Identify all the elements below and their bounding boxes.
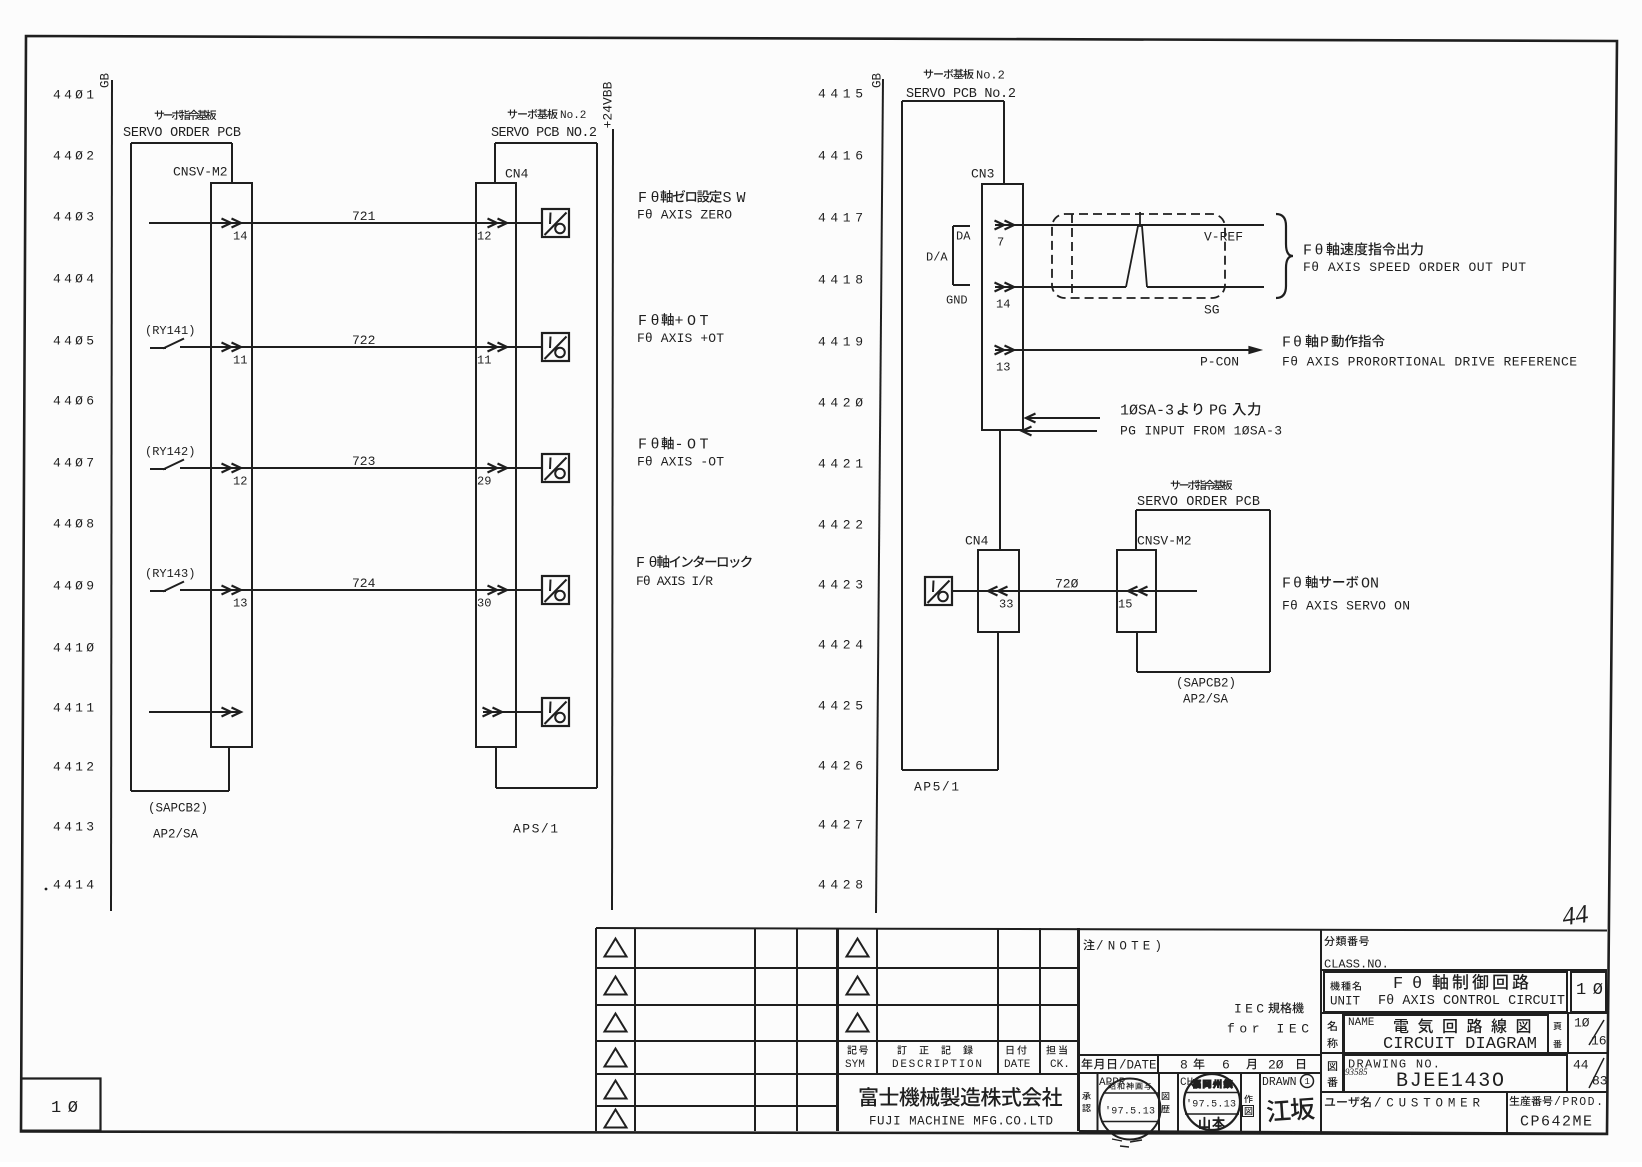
svg-text:CLASS.NO.: CLASS.NO. — [1324, 957, 1389, 971]
svg-text:Fθ AXIS I/R: Fθ AXIS I/R — [636, 574, 713, 589]
svg-text:θ: θ — [1315, 242, 1324, 259]
svg-text:PG INPUT FROM 1ØSA-3: PG INPUT FROM 1ØSA-3 — [1120, 424, 1282, 439]
svg-text:72Ø: 72Ø — [1055, 577, 1079, 592]
svg-text:Fθ AXIS ZERO: Fθ AXIS ZERO — [637, 208, 732, 223]
svg-text:APS/1: APS/1 — [513, 822, 560, 837]
svg-text:No.2: No.2 — [976, 68, 1005, 82]
svg-text:SERVO ORDER PCB: SERVO ORDER PCB — [1137, 495, 1260, 510]
svg-text:PG: PG — [1209, 402, 1227, 419]
svg-text:723: 723 — [352, 454, 375, 469]
svg-text:-OT: -OT — [675, 437, 709, 454]
svg-text:722: 722 — [352, 333, 375, 348]
svg-text:12: 12 — [477, 229, 491, 243]
svg-text:(RY142): (RY142) — [145, 445, 195, 459]
svg-text:1: 1 — [1305, 1077, 1310, 1087]
svg-text:(RY141): (RY141) — [145, 324, 195, 338]
svg-text:DATE: DATE — [1004, 1059, 1031, 1071]
svg-text:13: 13 — [233, 596, 247, 610]
svg-text:BJEE143O: BJEE143O — [1396, 1070, 1504, 1093]
svg-text:No.2: No.2 — [560, 110, 586, 122]
svg-text:F: F — [636, 555, 645, 572]
svg-text:CNSV-M2: CNSV-M2 — [1137, 534, 1192, 549]
svg-text:F: F — [638, 313, 647, 330]
svg-text:33: 33 — [999, 597, 1013, 611]
svg-text:16: 16 — [1591, 1034, 1607, 1049]
svg-text:P-CON: P-CON — [1200, 355, 1239, 370]
svg-text:GB: GB — [98, 72, 112, 88]
svg-text:CN4: CN4 — [505, 167, 529, 182]
svg-text:F: F — [1393, 975, 1403, 994]
svg-text:(SAPCB2): (SAPCB2) — [148, 801, 208, 815]
svg-text:14: 14 — [996, 297, 1010, 311]
svg-text:93585: 93585 — [1345, 1067, 1368, 1077]
svg-text:(SAPCB2): (SAPCB2) — [1176, 676, 1236, 690]
svg-text:DRAWN: DRAWN — [1262, 1076, 1297, 1089]
svg-text:P: P — [1320, 334, 1329, 351]
svg-text:CN3: CN3 — [971, 167, 994, 182]
svg-text:SG: SG — [1204, 303, 1220, 318]
svg-text:(RY143): (RY143) — [145, 567, 195, 581]
svg-text:1ØSA-3: 1ØSA-3 — [1120, 402, 1174, 419]
svg-text:AP2/SA: AP2/SA — [153, 827, 199, 841]
svg-text:2Ø: 2Ø — [1268, 1058, 1284, 1073]
svg-text:Fθ AXIS +OT: Fθ AXIS +OT — [637, 331, 724, 346]
svg-text:83: 83 — [1592, 1074, 1608, 1089]
svg-text:UNIT: UNIT — [1330, 994, 1361, 1008]
svg-text:F: F — [638, 437, 647, 454]
svg-text:+OT: +OT — [675, 313, 709, 330]
svg-text:/CUSTOMER: /CUSTOMER — [1374, 1096, 1480, 1110]
svg-text:44: 44 — [1573, 1058, 1589, 1073]
svg-text:θ: θ — [651, 313, 660, 330]
svg-text:1 Ø: 1 Ø — [51, 1099, 78, 1118]
svg-text:θ: θ — [1412, 975, 1422, 994]
svg-text:8: 8 — [1180, 1058, 1188, 1073]
svg-text:+24VBB: +24VBB — [601, 81, 616, 128]
svg-text:Fθ AXIS PRORORTIONAL DRIVE REF: Fθ AXIS PRORORTIONAL DRIVE REFERENCE — [1282, 355, 1577, 370]
svg-text:Fθ AXIS SERVO ON: Fθ AXIS SERVO ON — [1282, 599, 1410, 614]
svg-text:IEC: IEC — [1234, 1002, 1264, 1017]
svg-text:ON: ON — [1361, 575, 1379, 592]
svg-text:F: F — [1282, 575, 1291, 592]
svg-text:F: F — [638, 190, 647, 207]
svg-text:θ: θ — [651, 437, 660, 454]
svg-text:Fθ AXIS -OT: Fθ AXIS -OT — [637, 454, 724, 469]
svg-text:724: 724 — [352, 576, 376, 591]
svg-text:θ: θ — [1293, 575, 1302, 592]
svg-text:1Ø: 1Ø — [1574, 1016, 1590, 1031]
svg-text:1 Ø: 1 Ø — [1576, 981, 1603, 1000]
svg-text:AP2/SA: AP2/SA — [1183, 692, 1229, 706]
svg-text:SERVO PCB No.2: SERVO PCB No.2 — [906, 87, 1016, 102]
svg-text:GND: GND — [946, 293, 968, 307]
svg-text:13: 13 — [996, 360, 1010, 374]
svg-text:15: 15 — [1118, 597, 1132, 611]
svg-text:11: 11 — [477, 353, 491, 367]
svg-text:30: 30 — [477, 596, 491, 610]
svg-text:D/A: D/A — [926, 250, 948, 264]
svg-text:CK.: CK. — [1050, 1059, 1070, 1071]
svg-text:F: F — [1282, 334, 1291, 351]
svg-text:AP5/1: AP5/1 — [914, 780, 961, 795]
svg-text:721: 721 — [352, 209, 376, 224]
svg-text:SYM: SYM — [845, 1059, 865, 1071]
svg-text:CN4: CN4 — [965, 534, 989, 549]
svg-text:θ: θ — [649, 555, 658, 572]
svg-text:44: 44 — [1560, 899, 1590, 931]
svg-text:'97.5.13: '97.5.13 — [1105, 1106, 1155, 1118]
svg-text:29: 29 — [477, 474, 491, 488]
svg-text:SERVO PCB NO.2: SERVO PCB NO.2 — [491, 126, 597, 141]
svg-text:V-REF: V-REF — [1204, 230, 1243, 245]
svg-text:DESCRIPTION: DESCRIPTION — [892, 1059, 982, 1071]
svg-text:CP642ME: CP642ME — [1520, 1113, 1592, 1130]
svg-text:θ: θ — [1293, 334, 1302, 351]
svg-text:14: 14 — [233, 229, 247, 243]
svg-text:F: F — [1303, 242, 1312, 259]
svg-text:/DATE: /DATE — [1119, 1058, 1157, 1072]
svg-text:CIRCUIT DIAGRAM: CIRCUIT DIAGRAM — [1383, 1035, 1537, 1054]
svg-text:6: 6 — [1222, 1058, 1230, 1073]
svg-text:FUJI MACHINE MFG.CO.LTD: FUJI MACHINE MFG.CO.LTD — [869, 1114, 1053, 1128]
svg-text:NAME: NAME — [1348, 1017, 1375, 1029]
svg-text:Fθ AXIS CONTROL CIRCUIT: Fθ AXIS CONTROL CIRCUIT — [1378, 994, 1565, 1009]
svg-text:11: 11 — [233, 353, 247, 367]
svg-text:'97.5.13: '97.5.13 — [1186, 1099, 1236, 1111]
svg-text:θ: θ — [651, 190, 660, 207]
svg-text:12: 12 — [233, 474, 247, 488]
svg-text:DA: DA — [956, 229, 971, 243]
svg-text:GB: GB — [870, 72, 884, 88]
svg-text:SERVO ORDER PCB: SERVO ORDER PCB — [123, 126, 241, 141]
svg-text:7: 7 — [997, 235, 1004, 249]
svg-text:CNSV-M2: CNSV-M2 — [173, 165, 228, 180]
svg-text:Fθ AXIS SPEED ORDER OUT PUT: Fθ AXIS SPEED ORDER OUT PUT — [1303, 260, 1526, 275]
